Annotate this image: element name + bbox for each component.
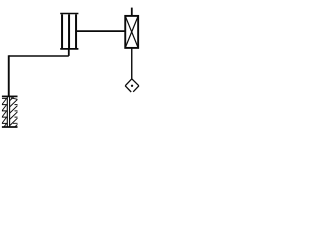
three-plate element E1 plate 1 [61,14,63,48]
wire from E1 plate 3 to crossed box [76,30,125,32]
left horizontal wire [9,55,69,57]
hatched element E2 inner vertical left [6,96,8,127]
three-plate element E1 plate 3 [75,14,77,48]
crossed-box element outline [125,16,138,48]
wire stub above crossed box [131,8,133,16]
hatched element E2 left hatch field (sawtooth) [2,98,7,129]
diamond element lower-right edge (stops at drain gap) [133,86,139,92]
diamond element center dot [131,85,133,87]
hatched element E2 inner vertical right [9,96,11,127]
stub from E1 bottom bar down to left wire [68,49,70,56]
hatched element E2 right hatch field [10,96,18,132]
diamond element lower-left edge (stops at drain gap) [125,86,131,92]
three-plate element E1 top bar [60,13,78,15]
three-plate element E1 plate 2 [68,14,70,48]
hatched element E2 bottom bar [2,126,18,128]
three-plate element E1 bottom bar [60,48,78,50]
diamond element (water separator) upper-left edge [125,79,132,86]
diamond element upper-right edge [132,79,139,86]
crossed-box element diagonal 2 [125,16,138,48]
crossed-box element diagonal 1 [125,16,138,48]
wire from crossed box down to diamond [131,48,133,79]
left vertical wire [8,55,10,96]
hatched element E2 top bar [2,95,18,97]
